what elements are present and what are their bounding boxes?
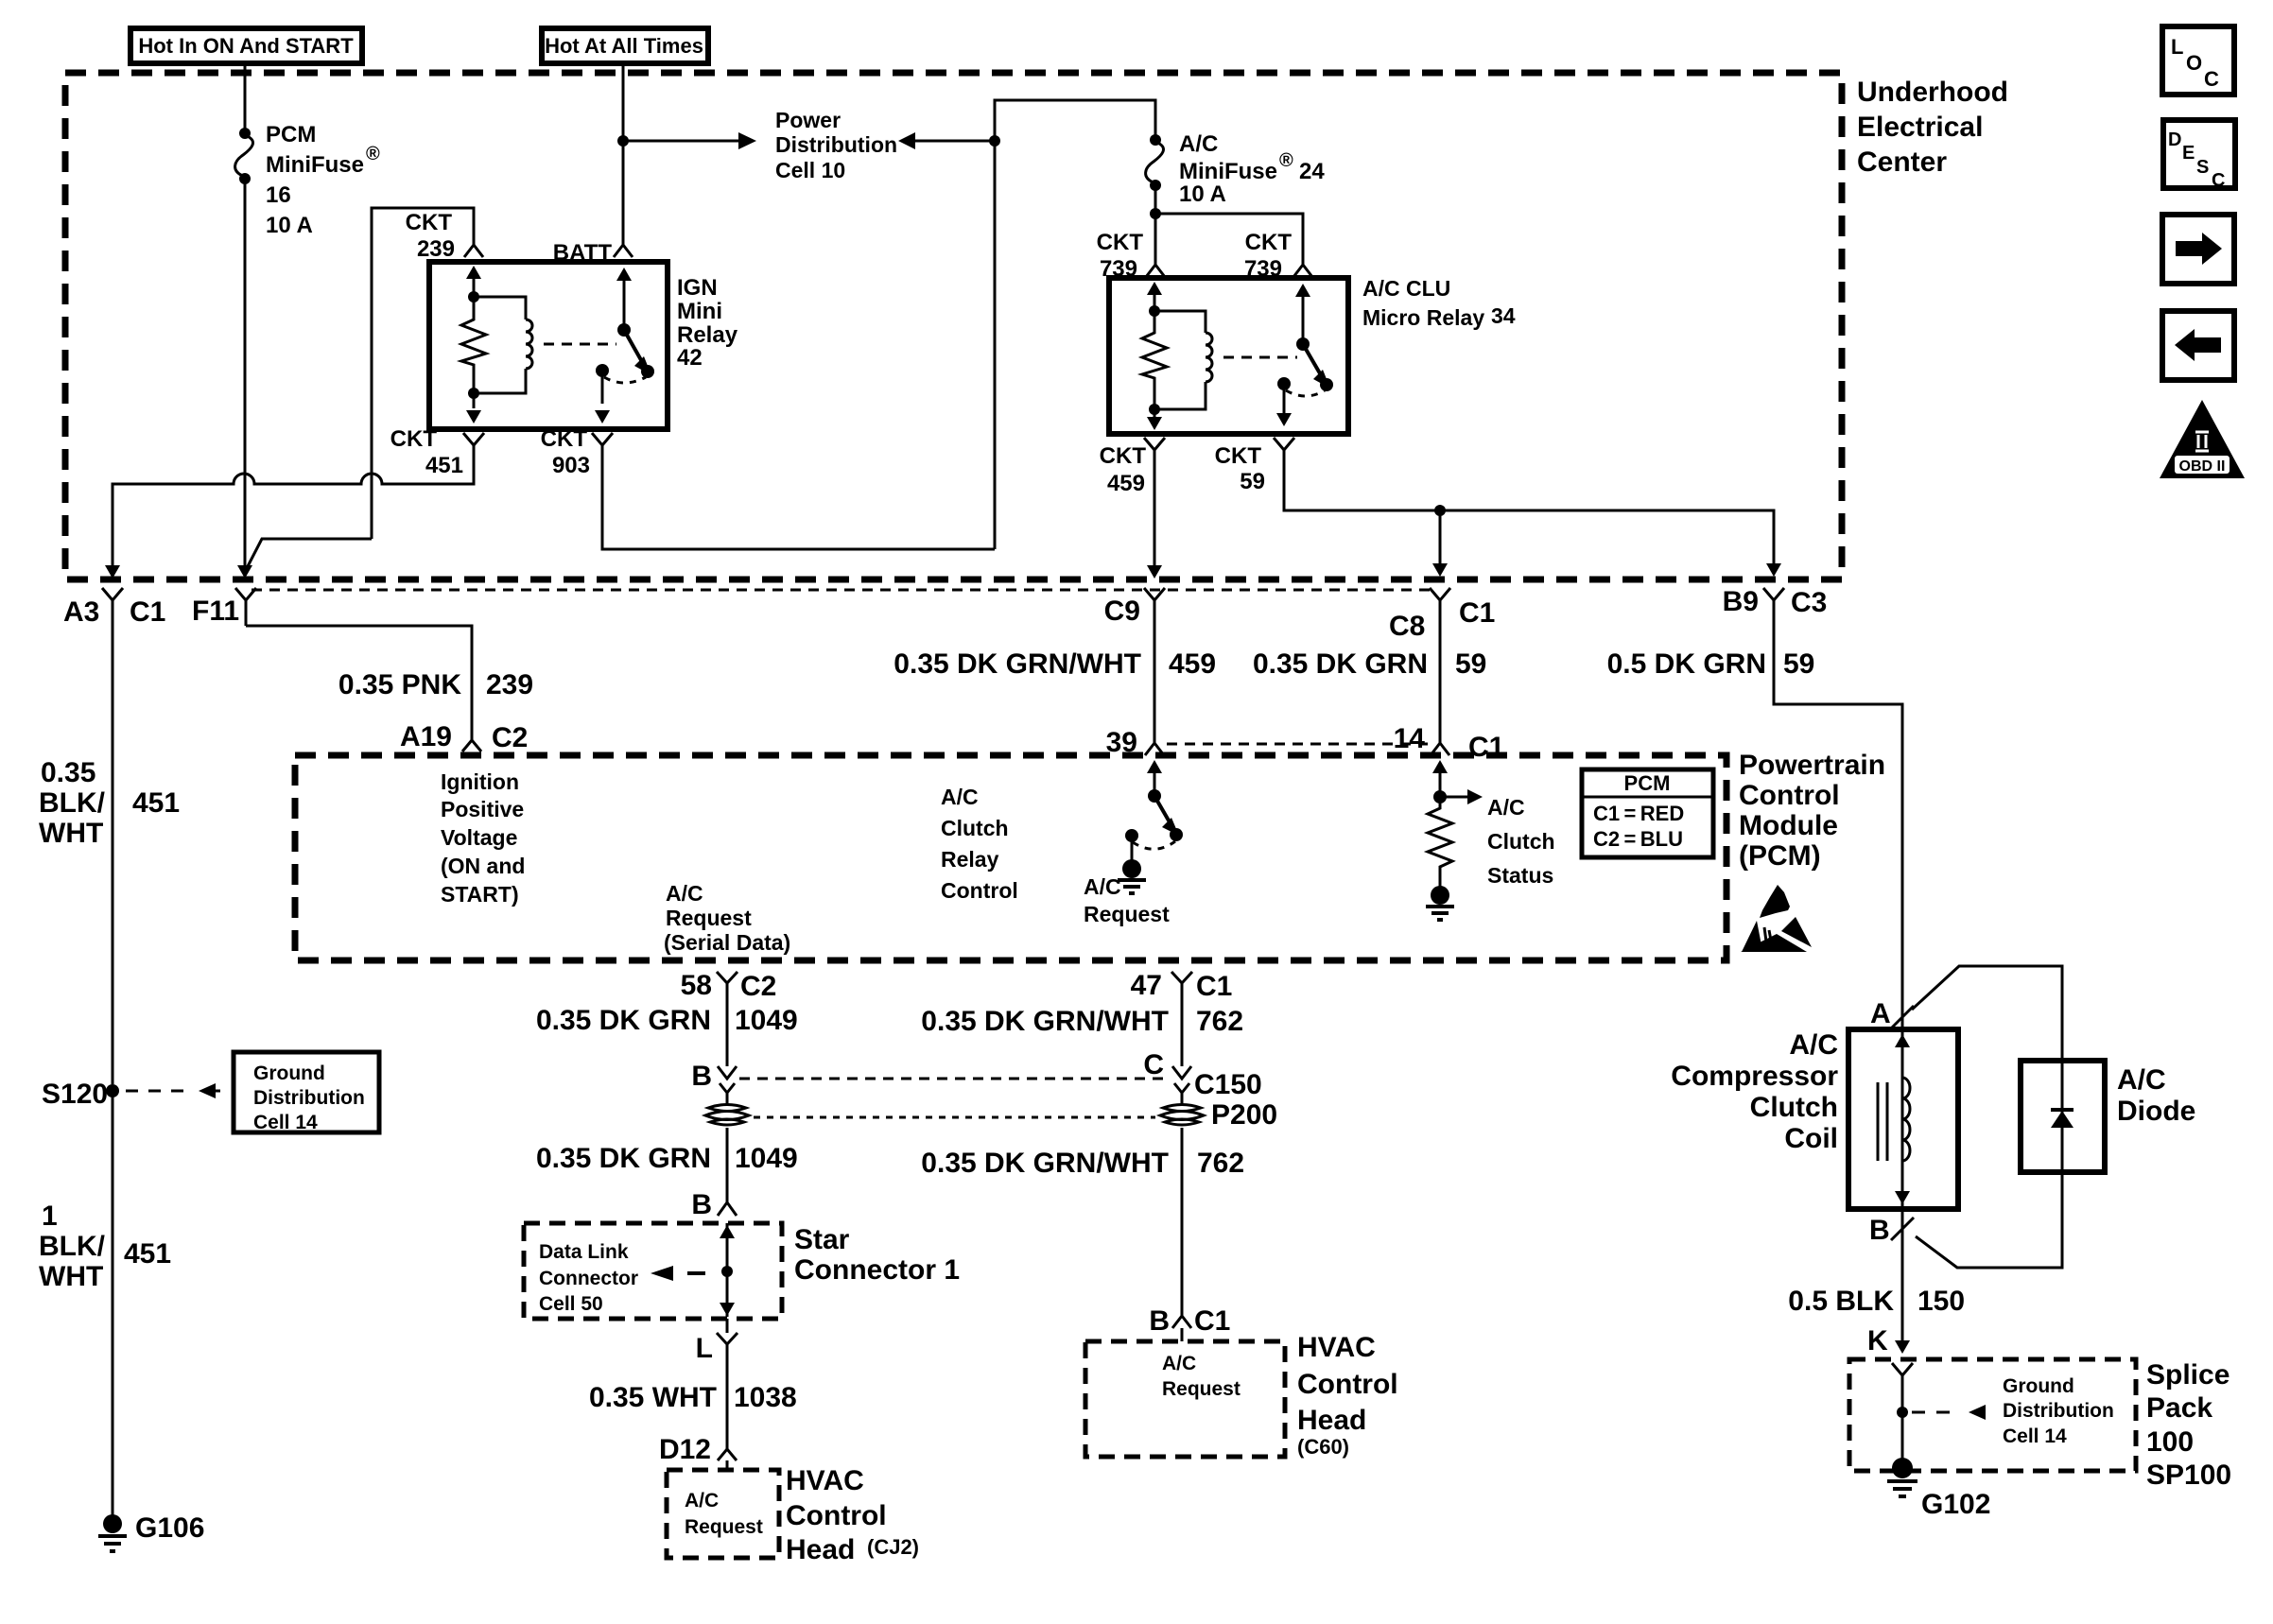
ground at A/C clutch relay control [1118,859,1146,893]
connector chevron CKT 459 below relay [1144,438,1165,463]
connector pin 14 [1394,723,1505,763]
svg-text:0.35 DK GRN/WHT: 0.35 DK GRN/WHT [921,1006,1169,1037]
C150 connector fine-dashed line [739,1078,1170,1080]
wire CKT 59 down, right and into C8 and B9 [1284,450,1781,577]
svg-text:Underhood: Underhood [1857,77,2008,108]
svg-text:Mini: Mini [677,299,722,324]
svg-text:D12: D12 [659,1434,711,1465]
label 0.35 DK GRN/WHT 762 (lower) [921,1148,1244,1179]
label Powertrain Control Module (PCM) [1739,750,1885,872]
svg-text:10 A: 10 A [1179,181,1226,207]
svg-text:S: S [2196,157,2209,178]
label A/C CLU Micro Relay 34 [1362,276,1516,330]
icon OBD II triangle [2160,400,2245,478]
wire S120 down to G106 [112,1091,114,1519]
svg-text:Compressor: Compressor [1671,1061,1838,1092]
svg-text:A: A [1870,998,1891,1029]
svg-text:0.35 DK GRN: 0.35 DK GRN [536,1005,711,1036]
label CKT 739 right [1244,230,1292,282]
svg-text:Hot At All Times: Hot At All Times [545,34,703,58]
svg-text:P200: P200 [1211,1099,1277,1131]
label 0.35 PNK 239 [338,669,533,700]
svg-text:PCM: PCM [266,122,316,147]
svg-text:Connector: Connector [539,1268,638,1289]
svg-text:L: L [696,1333,713,1364]
label Ground Distribution Cell 14 (splice) [2003,1375,2114,1447]
svg-text:(C60): (C60) [1297,1435,1349,1459]
label 0.35 WHT 1038 [589,1382,797,1413]
svg-text:Ignition: Ignition [441,769,519,794]
relay switch (A/C CLU): pin 739 arm [1295,284,1333,391]
icon left arrow box [2162,311,2234,380]
svg-text:1038: 1038 [734,1382,797,1413]
svg-text:0.35 DK GRN/WHT: 0.35 DK GRN/WHT [921,1148,1169,1179]
wire C9 to PCM pin 39 [1154,613,1156,735]
header box "Hot In ON And START" [130,28,362,63]
svg-text:Star: Star [794,1224,850,1255]
svg-text:459: 459 [1169,648,1216,680]
svg-text:CKT: CKT [390,426,438,452]
wire: below A/C fuse with branch to CKT 739 pins [1155,185,1303,249]
resistor inside A/C CLU relay [1142,311,1167,409]
svg-text:C1: C1 [1468,732,1504,763]
wire below grommet to B star [726,1128,729,1202]
svg-text:G106: G106 [135,1512,204,1544]
svg-text:A/C: A/C [1162,1353,1196,1374]
lower dot and down arrow (IGN coil) [466,388,481,423]
svg-text:0.35 DK GRN: 0.35 DK GRN [536,1143,711,1174]
svg-text:Relay: Relay [941,847,999,872]
label CKT 59 [1215,443,1265,494]
wire arrow right to Power Distribution [623,132,756,149]
label Splice Pack 100 SP100 [2146,1359,2231,1491]
label 1 BLK/WHT 451 [39,1201,171,1292]
connector A at compressor [1870,998,1914,1029]
svg-text:(ON and: (ON and [441,854,525,878]
svg-text:0.35 DK GRN: 0.35 DK GRN [1253,648,1428,680]
svg-text:Control: Control [1297,1369,1398,1400]
svg-text:B: B [691,1189,712,1220]
svg-text:L: L [2171,35,2183,59]
svg-text:CKT: CKT [541,426,588,452]
PCM dashed box [295,755,1726,960]
dashed actuation link (IGN) [544,343,616,346]
svg-text:14: 14 [1394,723,1426,754]
label A/C Clutch Relay Control [941,785,1018,903]
label A/C Request inside C60 box [1162,1353,1241,1400]
wire L down to D12 [726,1319,729,1443]
junction on A/C feed riser [989,135,1000,147]
svg-text:Splice: Splice [2146,1359,2230,1391]
svg-text:Cell 14: Cell 14 [253,1112,318,1133]
wire: Hot At All Times down to BATT [622,61,625,233]
svg-text:C150: C150 [1194,1069,1262,1100]
svg-text:CKT: CKT [406,210,453,235]
label HVAC Control Head (CJ2) [786,1465,919,1565]
label 0.35 DK GRN 1049 (lower) [536,1143,798,1174]
connector chevron CKT 903 below relay [592,433,613,458]
Ground Distribution Cell 14 box [234,1052,379,1133]
svg-text:BLK/: BLK/ [39,787,106,819]
A/C Clutch Relay Control switch [1125,760,1183,862]
svg-text:C1: C1 [1196,971,1232,1002]
resistor inside IGN relay [461,297,486,393]
svg-text:CKT: CKT [1097,230,1144,255]
svg-text:Clutch: Clutch [941,816,1009,840]
label Power Distribution Cell 10 [775,108,897,182]
dashed reference arrow to Ground Distribution (splice) [1912,1405,1986,1420]
wire CKT 459 down to C9 [1147,450,1162,579]
svg-text:A3: A3 [63,596,99,628]
grommet P200 (left) [705,1105,749,1126]
connector chevron CKT 739 right [1293,249,1312,277]
compressor coil internals [1878,1029,1910,1209]
svg-text:(PCM): (PCM) [1739,840,1821,872]
P200 grommet dotted line [754,1116,1155,1119]
svg-text:SP100: SP100 [2146,1460,2231,1491]
svg-text:Clutch: Clutch [1487,829,1555,854]
svg-text:Request: Request [1162,1378,1241,1400]
label A/C MiniFuse 24 10A [1179,131,1325,207]
icon right arrow box [2162,215,2234,284]
svg-text:START): START) [441,882,519,907]
diode symbol [2051,1061,2073,1172]
svg-text:(Serial Data): (Serial Data) [664,930,790,955]
coil inside IGN relay [474,297,532,393]
Underhood Electrical Center dashed box [65,73,1842,579]
chevron inside splice pack [1892,1363,1913,1388]
label 0.5 BLK 150 [1788,1286,1965,1317]
svg-text:C: C [2212,170,2225,191]
svg-text:Data Link: Data Link [539,1241,629,1263]
svg-text:Voltage: Voltage [441,825,517,850]
connector chevron CKT 59 below relay [1274,438,1294,463]
wire B down to K [1901,1209,1904,1342]
wire to ground G102 [1901,1375,1904,1463]
fuse PCM MiniFuse 16 10A [235,128,253,184]
svg-text:A/C: A/C [1084,874,1121,899]
wire C8 to PCM pin 14 [1439,613,1442,735]
label Data Link Connector Cell 50 [539,1241,638,1315]
svg-text:Ground: Ground [253,1063,325,1084]
svg-text:34: 34 [1491,303,1516,328]
svg-text:B: B [1869,1215,1890,1246]
svg-text:Head: Head [1297,1405,1366,1436]
connector chevron CKT 451 below relay [463,433,484,458]
junction at Hot At All Times [617,135,629,147]
svg-text:Distribution: Distribution [253,1087,365,1109]
svg-text:G102: G102 [1921,1489,1990,1520]
svg-text:10 A: 10 A [266,213,313,238]
PCM connector color legend box [1582,769,1713,857]
svg-text:42: 42 [677,345,703,371]
svg-text:Hot In ON And START: Hot In ON And START [138,34,354,58]
svg-text:OBD II: OBD II [2179,458,2226,475]
svg-text:B9: B9 [1723,586,1759,617]
ground at A/C clutch status [1426,886,1454,920]
header box "Hot At All Times" [542,28,708,63]
connector pin 58/C2 below PCM [681,970,777,1002]
svg-text:Connector 1: Connector 1 [794,1254,960,1286]
svg-text:100: 100 [2146,1426,2194,1458]
Star Connector 1 dashed box [524,1223,782,1319]
label A/C Request (pin 47) [1084,874,1170,926]
svg-text:Request: Request [666,906,752,930]
F11 chevron below boundary [235,588,256,626]
svg-text:451: 451 [132,787,180,819]
svg-text:C: C [1143,1049,1164,1080]
svg-text:47: 47 [1131,970,1162,1001]
wire branch to A/C diode (top) [1912,966,2062,1061]
grommet P200 (right) [1160,1099,1277,1131]
svg-text:Cell 14: Cell 14 [2003,1425,2067,1447]
relay box A/C CLU Micro Relay 34 [1109,278,1348,434]
svg-text:A/C: A/C [1487,795,1525,820]
connector B at compressor [1869,1215,1914,1246]
wire: CKT 239 up over and down to F11 [247,208,474,568]
svg-text:C1: C1 [1194,1305,1230,1337]
label A/C Clutch Status [1487,795,1555,888]
relay coil branch (A/C CLU): up arrow [1147,282,1162,317]
dashed reference arrow to Data Link Connector [651,1266,705,1281]
svg-text:Powertrain: Powertrain [1739,750,1885,781]
label A/C Request inside CJ2 box [685,1490,763,1538]
fuse A/C MiniFuse 24 10A [1146,134,1164,191]
svg-text:®: ® [366,144,380,164]
ESD sensitive icon [1741,885,1812,952]
C8 chevron below boundary [1430,588,1450,613]
icon DESC box [2163,120,2235,191]
svg-text:0.35 PNK: 0.35 PNK [338,669,461,700]
svg-text:0.35: 0.35 [41,757,95,788]
svg-text:B: B [1149,1305,1170,1337]
HVAC Control Head (CJ2) dashed box [667,1470,779,1558]
B9 chevron below boundary [1763,588,1784,613]
svg-text:S120: S120 [42,1079,108,1110]
svg-text:A/C: A/C [666,881,703,906]
wire below grommet to HVAC C60 [1181,1128,1184,1304]
connector chevron CKT 739 left [1146,249,1165,277]
svg-text:762: 762 [1197,1148,1244,1179]
Splice Pack dashed box [1849,1359,2136,1471]
label 0.35 DK GRN 1049 [536,1005,798,1036]
svg-text:59: 59 [1783,648,1814,680]
ground G102 [1887,1458,1990,1520]
label CKT 459 [1100,443,1147,496]
svg-text:Status: Status [1487,863,1553,888]
svg-text:A/C: A/C [1789,1029,1838,1061]
svg-text:Control: Control [786,1500,887,1531]
svg-text:239: 239 [486,669,533,700]
label 0.35 DK GRN 59 [1253,648,1486,680]
svg-text:Cell 50: Cell 50 [539,1293,603,1315]
labels B9 C3 [1723,586,1828,618]
connector C1 face fine-dashed line [252,589,1431,592]
svg-text:Micro Relay: Micro Relay [1362,305,1484,330]
wire CKT 903 down right to riser [602,445,995,549]
svg-text:C1: C1 [1459,597,1495,629]
svg-text:PCM: PCM [1624,771,1671,795]
label 0.35 DK GRN/WHT 762 [921,1006,1243,1037]
svg-text:16: 16 [266,182,291,208]
connector A19/C2 into PCM [400,721,528,753]
A/C Diode box [2021,1061,2105,1172]
svg-text:F11: F11 [192,596,239,627]
svg-text:1: 1 [42,1201,58,1232]
label CKT 739 left [1097,230,1144,282]
svg-text:Cell 10: Cell 10 [775,158,845,182]
in-line connector C150 halves (B side) [691,1061,737,1105]
arrow into C9 (already above) ; A3 chevron below boundary [102,588,123,624]
svg-text:59: 59 [1240,469,1265,494]
svg-text:Request: Request [685,1516,763,1538]
wire: Hot In ON And START down to PCM fuse [244,61,247,129]
A/C Compressor Clutch Coil box [1848,1029,1958,1209]
connector D12 into HVAC head [659,1434,737,1470]
label Star Connector 1 [794,1224,960,1286]
label A/C Compressor Clutch Coil [1671,1029,1838,1154]
svg-text:HVAC: HVAC [786,1465,864,1496]
svg-text:762: 762 [1196,1006,1243,1037]
svg-text:B: B [691,1061,712,1092]
svg-text:(CJ2): (CJ2) [867,1535,919,1559]
svg-text:Clutch: Clutch [1750,1092,1838,1123]
svg-text:®: ® [1279,150,1293,171]
svg-text:K: K [1867,1325,1888,1356]
dashed actuation link (A/C CLU) [1223,356,1297,359]
labels C8 C1 [1389,597,1495,642]
wire through star connector with arrows [720,1223,735,1317]
relay switch common (A/C CLU) [1276,377,1325,426]
svg-text:BLK/: BLK/ [39,1231,106,1262]
svg-text:58: 58 [681,970,712,1001]
in-line connector C150 halves (C side) [1143,1049,1261,1105]
label 0.5 DK GRN 59 [1607,648,1815,680]
svg-text:C2: C2 [492,722,528,753]
junction below A/C fuse [1150,208,1161,219]
coil inside A/C CLU relay [1154,311,1212,409]
svg-text:451: 451 [124,1238,171,1270]
label HVAC Control Head (C60) [1297,1332,1398,1459]
relay coil branch (IGN): up arrow [466,266,481,302]
svg-text:C2: C2 [740,971,776,1002]
wire CKT 451 down, left (hops) and to A3 [105,445,474,579]
svg-text:Center: Center [1857,147,1947,178]
connector B into star connector [691,1189,737,1220]
label IGN Mini Relay 42 [677,275,738,371]
svg-text:MiniFuse: MiniFuse [1179,159,1277,184]
svg-text:A/C: A/C [2117,1064,2166,1096]
svg-text:Head: Head [786,1534,855,1565]
C9 chevron below boundary [1144,588,1165,613]
svg-text:Request: Request [1084,902,1170,926]
svg-text:0.5 BLK: 0.5 BLK [1788,1286,1894,1317]
svg-text:A/C: A/C [1179,131,1218,157]
svg-text:1049: 1049 [735,1005,798,1036]
svg-text:0.35 WHT: 0.35 WHT [589,1382,717,1413]
label BATT and chevron [553,232,633,266]
svg-text:Control: Control [1739,780,1840,811]
svg-text:O: O [2186,51,2202,75]
wire: PCM fuse down to F11 [244,179,247,567]
svg-text:BATT: BATT [553,240,613,266]
svg-text:WHT: WHT [39,818,103,849]
wire branch from A/C diode (bottom) [1916,1172,2062,1268]
label CKT 903 [541,426,590,478]
svg-text:Relay: Relay [677,322,738,348]
arrow into F11 [237,565,252,579]
svg-text:C: C [2204,67,2219,91]
svg-text:39: 39 [1106,727,1137,758]
connector B/C1 into HVAC head C60 [1149,1304,1230,1341]
wire 47 down to C150 [1181,993,1184,1066]
label CKT 451 [390,426,463,478]
label A/C Diode [2117,1064,2195,1127]
wire F11 to A19 [246,626,472,728]
svg-text:D: D [2168,130,2181,150]
svg-text:C1 = RED: C1 = RED [1593,802,1684,825]
dashed reference arrow to Ground Distribution [126,1083,220,1098]
connector pin 47/C1 below PCM [1131,970,1233,1002]
label 0.35 DK GRN/WHT 459 [894,648,1216,680]
wire B9/C3 to compressor A [1774,613,1902,1029]
svg-text:24: 24 [1299,159,1325,184]
svg-text:A/C: A/C [685,1490,719,1512]
svg-text:59: 59 [1455,648,1486,680]
svg-text:WHT: WHT [39,1261,103,1292]
label Ignition Positive Voltage (ON and START) [441,769,525,907]
relay switch common (IGN) [595,364,646,423]
wire: CKT903 riser up and over to A/C fuse [995,100,1155,549]
svg-text:451: 451 [425,453,463,478]
svg-text:C8: C8 [1389,611,1425,642]
connector K arrow into splice pack [1867,1325,1910,1356]
svg-text:A19: A19 [400,721,452,752]
label 0.35 BLK/WHT 451 [39,757,180,849]
svg-text:CKT: CKT [1245,230,1293,255]
svg-text:903: 903 [552,453,590,478]
svg-text:150: 150 [1917,1286,1965,1317]
svg-text:Diode: Diode [2117,1096,2195,1127]
svg-text:1049: 1049 [735,1143,798,1174]
svg-text:C3: C3 [1791,587,1827,618]
relay box IGN Mini Relay 42 [429,262,668,429]
svg-text:HVAC: HVAC [1297,1332,1376,1363]
svg-text:Ground: Ground [2003,1375,2074,1397]
svg-text:A/C: A/C [941,785,979,809]
label PCM MiniFuse 16 10A [266,122,380,238]
svg-text:CKT: CKT [1100,443,1147,469]
svg-text:0.35 DK GRN/WHT: 0.35 DK GRN/WHT [894,648,1141,680]
splice S120 on left column [42,1079,119,1110]
lower dot and down arrow (A/C CLU coil) [1147,404,1162,430]
svg-text:Power: Power [775,108,841,132]
svg-text:Module: Module [1739,810,1838,841]
svg-text:459: 459 [1107,471,1145,496]
svg-text:239: 239 [417,236,455,262]
labels A3 C1 [63,596,165,628]
svg-text:Distribution: Distribution [775,132,897,157]
HVAC Control Head (C60) dashed box [1085,1341,1285,1457]
svg-text:MiniFuse: MiniFuse [266,152,364,178]
connector pin 39 [1106,727,1164,758]
A/C Clutch Status sense resistor [1428,760,1483,889]
svg-text:CKT: CKT [1215,443,1262,469]
label A/C Request (Serial Data) [664,881,790,955]
wire 58 down to C150 [726,993,729,1066]
svg-text:0.5 DK GRN: 0.5 DK GRN [1607,648,1766,680]
connector L below star connector [696,1333,737,1364]
